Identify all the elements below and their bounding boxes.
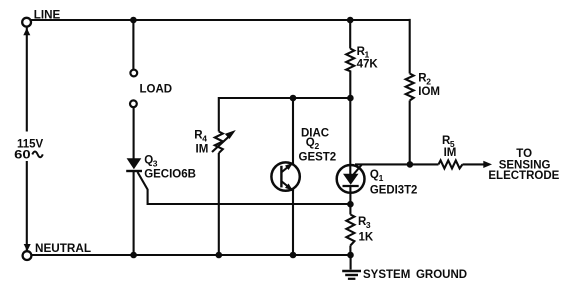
electrode arrow [483,161,492,168]
svg-text:GECIO6B: GECIO6B [144,168,196,180]
transistor Q1 cathode bar [343,185,359,187]
node junction Q1 gate wire [347,201,354,208]
source arrow up [23,28,30,35]
resistor R1 zigzag [346,49,354,72]
resistor R3 zigzag [346,215,354,246]
wire R2 branch lower [409,101,411,165]
svg-text:1K: 1K [359,232,374,244]
svg-text:TO: TO [516,148,532,160]
resistor R4 wiper arrow [212,136,230,153]
resistor R5 zigzag [439,160,463,168]
svg-text:3: 3 [366,220,371,230]
diac Q2 bar [280,166,282,188]
node junction diac top [290,95,297,102]
transistor Q1 circle [337,165,365,193]
svg-text:47K: 47K [357,59,379,71]
ground bar 3 [348,278,356,280]
wire R4 branch top [219,98,351,132]
svg-text:2: 2 [315,141,320,151]
diac Q2 circle [271,162,299,190]
wire bottom rail [31,254,350,256]
wire Q3 anode [133,107,135,159]
svg-text:GEST2: GEST2 [299,152,337,164]
svg-text:Q: Q [306,137,315,149]
diac Q2 lower diagonal [282,182,294,192]
svg-text:ELECTRODE: ELECTRODE [488,170,559,182]
svg-text:LINE: LINE [34,9,61,21]
svg-text:IM: IM [196,144,209,156]
wire Q1 cathode [349,187,351,215]
node junction top load [130,17,137,24]
wire R1 to Q1 [349,71,351,176]
svg-text:NEUTRAL: NEUTRAL [35,243,91,255]
diac Q2 upper diagonal [282,162,294,172]
wire top rail [31,19,410,21]
ground bar 1 [342,270,361,273]
wire Q1 to R5 [355,163,439,165]
wire R3 to ground node [349,246,351,256]
resistor R2 zigzag [406,74,414,101]
terminal LINE [22,18,31,27]
transistor Q1 anode triangle [343,174,359,185]
wire Q3 gate [138,172,351,204]
node junction top R1 [347,17,354,24]
node junction R3 ground [347,252,354,259]
terminal NEUTRAL [23,251,32,260]
svg-text:4: 4 [202,133,207,143]
wire load branch [132,20,134,69]
svg-text:Q: Q [370,169,379,181]
wire left source column lower [26,161,28,251]
terminal LOAD lower [130,100,137,107]
svg-text:3: 3 [153,159,158,169]
thyristor Q3 cathode bar [126,170,142,172]
transistor Q1 gate diagonal [354,164,362,174]
thyristor Q3 triangle [127,158,142,169]
svg-text:IOM: IOM [418,86,440,98]
svg-text:IM: IM [444,147,457,159]
wire diac top [292,98,294,164]
wire Q3 cathode [133,171,135,255]
node junction diac neutral [290,252,297,259]
svg-text:2: 2 [426,77,431,87]
node junction Q3 neutral [130,252,137,259]
wire R2 branch upper [409,19,411,74]
node junction R2 R5 [407,161,414,168]
wire R5 to electrode arrow [463,163,486,165]
wire R4 branch bottom [218,153,220,255]
ground bar 2 [345,274,358,276]
svg-text:GEDI3T2: GEDI3T2 [370,184,418,196]
wire R1 top [349,20,351,49]
svg-text:SYSTEM GROUND: SYSTEM GROUND [363,269,467,281]
node junction R4 neutral [216,252,223,259]
svg-text:60: 60 [14,150,31,162]
terminal LOAD upper [130,70,137,77]
wire left source column upper [26,27,28,132]
source arrow down [24,244,31,251]
ground stub [350,255,352,270]
wire diac bottom [292,190,294,256]
svg-text:1: 1 [379,173,384,183]
svg-text:LOAD: LOAD [140,83,173,95]
node junction R1 bottom [347,95,354,102]
resistor R4 zigzag [215,132,223,154]
